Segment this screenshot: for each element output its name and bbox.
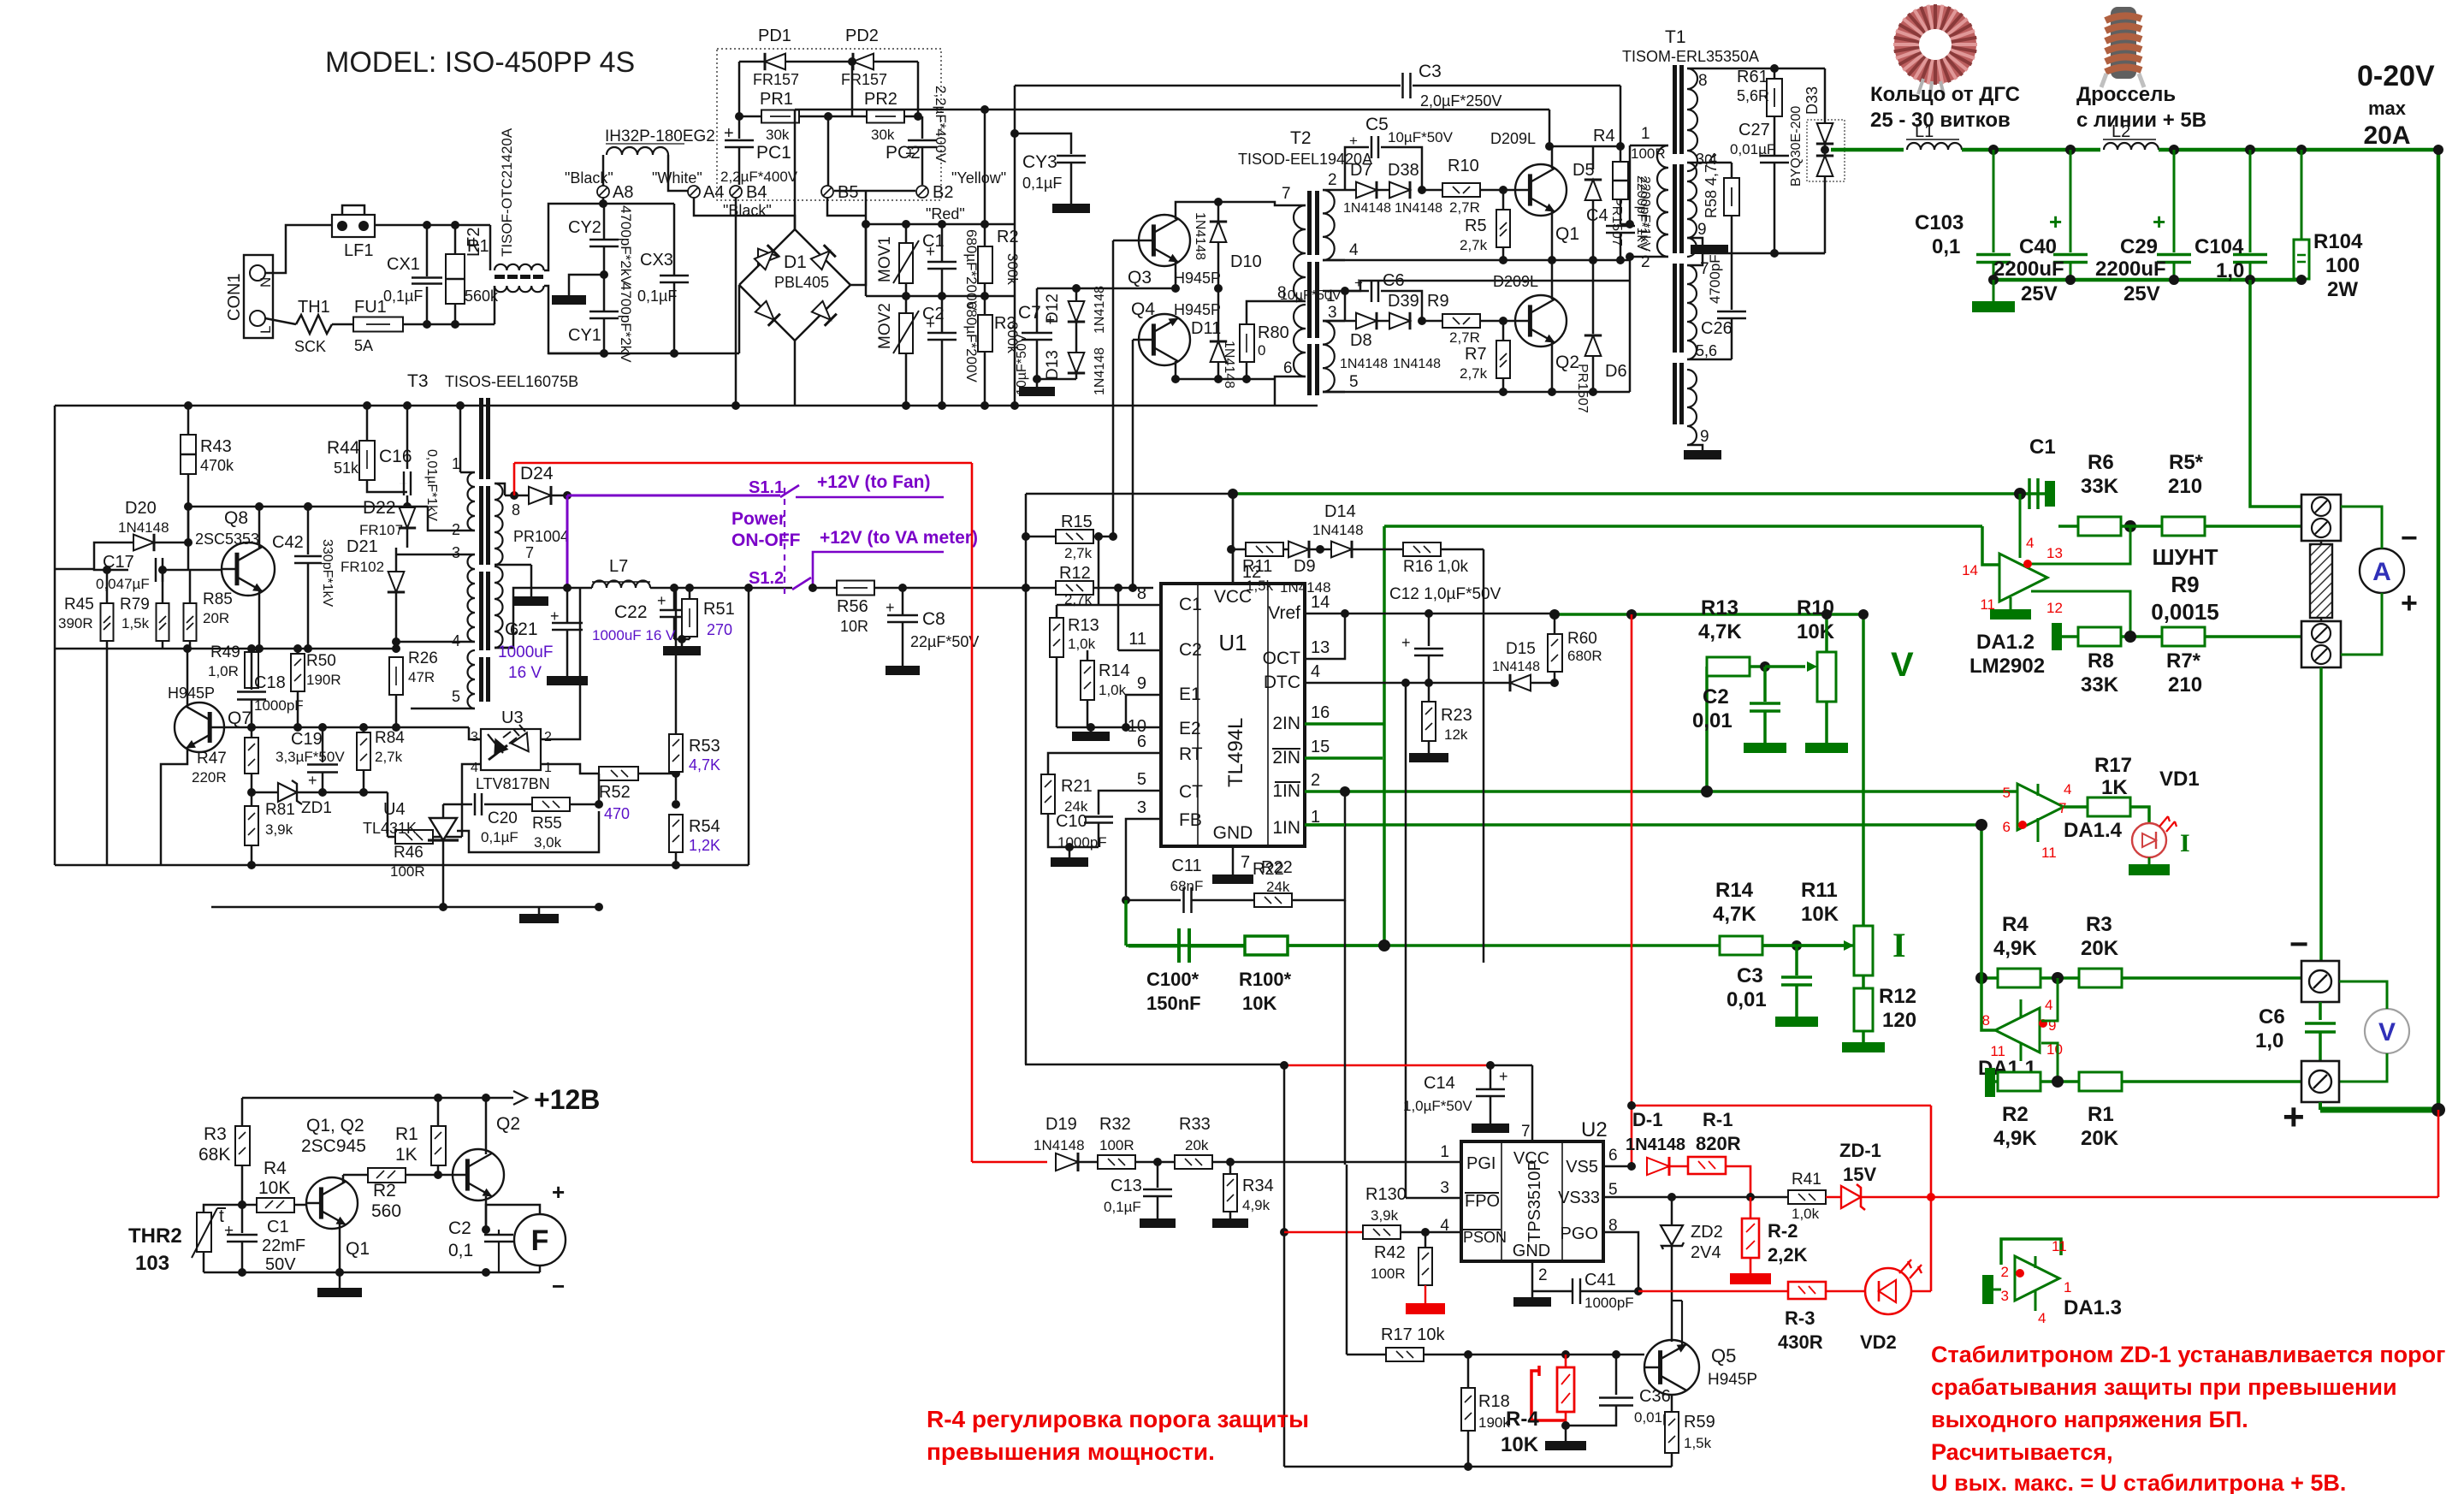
T2 primary winding lower — [1294, 305, 1306, 376]
wire DA1.1 pin10 — [2041, 1043, 2058, 1082]
svg-text:Q3: Q3 — [1128, 268, 1152, 288]
svg-text:Расчитывается,: Расчитывается, — [1931, 1439, 2113, 1465]
capacitor C6 1,0 green — [2319, 1002, 2322, 1020]
svg-text:+: + — [657, 592, 666, 609]
capacitor C3 green small — [1795, 946, 1798, 975]
svg-text:R26: R26 — [408, 649, 438, 667]
wire bridge right — [850, 224, 866, 285]
svg-text:"Black": "Black" — [565, 169, 613, 187]
svg-text:L: L — [258, 326, 274, 334]
svg-text:D8: D8 — [1350, 331, 1372, 350]
U1 Vref wire — [1305, 613, 1555, 615]
T3 secondary 6 — [495, 566, 503, 648]
capacitor CX1 — [426, 225, 429, 276]
resistor R33 20k — [1175, 1155, 1212, 1169]
svg-text:430R: 430R — [1778, 1331, 1823, 1353]
svg-text:MOV1: MOV1 — [876, 236, 894, 282]
node A8 — [597, 186, 609, 198]
ground for CY1/CY2 — [600, 270, 608, 279]
svg-text:R58 4,7R: R58 4,7R — [1703, 153, 1720, 218]
resistor R22 24k — [1254, 893, 1292, 907]
resistor R7 2,7k — [1499, 317, 1507, 325]
svg-text:1000pF: 1000pF — [1057, 834, 1107, 851]
svg-text:срабатывания защиты при превыш: срабатывания защиты при превышении — [1931, 1374, 2397, 1400]
svg-text:I: I — [1892, 926, 1906, 964]
svg-text:D15: D15 — [1506, 640, 1536, 658]
green C100 R100 branch — [1124, 900, 1128, 946]
svg-text:"Black": "Black" — [723, 202, 772, 219]
wire green right vertical — [2437, 150, 2441, 1110]
T2 pin1 tap — [1323, 290, 1336, 293]
U1 pin C1 wire — [1099, 604, 1161, 607]
svg-text:TH1: TH1 — [298, 298, 330, 317]
T2 primary winding upper — [1294, 205, 1306, 301]
resistor R32 100R — [1079, 1161, 1098, 1164]
diode D5 PR1507 — [1592, 180, 1595, 190]
svg-text:R42: R42 — [1374, 1243, 1406, 1262]
svg-text:R6: R6 — [2088, 451, 2114, 474]
diode PD1 — [739, 61, 764, 63]
LED VD1 — [2130, 807, 2149, 823]
wire R3 to terminal — [2122, 977, 2305, 979]
svg-text:0,1: 0,1 — [448, 1241, 473, 1260]
svg-text:A: A — [2372, 558, 2391, 586]
svg-text:1N4148: 1N4148 — [1093, 286, 1107, 334]
svg-text:4: 4 — [2045, 997, 2052, 1013]
svg-text:R47: R47 — [197, 750, 227, 768]
resistor R61 5,6R — [1774, 68, 1776, 79]
svg-text:R13: R13 — [1701, 596, 1738, 620]
wire U4 ref — [457, 811, 599, 852]
svg-text:330pF*1kV: 330pF*1kV — [320, 539, 335, 607]
resistor R6 33K — [2078, 517, 2121, 536]
wire PGO — [1603, 1232, 1638, 1291]
terminal block shunt top — [2301, 495, 2341, 541]
purple vertical to L7 node — [566, 495, 569, 588]
resistor R1 — [454, 225, 457, 254]
capacitor C104 — [2245, 145, 2255, 155]
diode D6 PR1507 — [1592, 260, 1595, 334]
svg-text:2200uF: 2200uF — [2095, 258, 2166, 281]
capacitor C41 — [1572, 1278, 1573, 1304]
resistor R8 33K — [2078, 627, 2121, 646]
resistor R12 120 green — [1854, 988, 1873, 1031]
svg-text:FR157: FR157 — [841, 71, 887, 88]
svg-text:PGI: PGI — [1466, 1154, 1496, 1173]
wire bridge left — [738, 285, 741, 353]
svg-text:R100*: R100* — [1239, 969, 1292, 990]
svg-text:R84: R84 — [375, 729, 405, 747]
transistor Q7 H945P — [175, 703, 224, 752]
svg-text:R2: R2 — [373, 1181, 396, 1201]
wire x1200 vertical — [1025, 494, 1028, 1064]
wire row pin5 — [1323, 391, 1630, 394]
svg-text:1,2K: 1,2K — [689, 837, 720, 854]
svg-text:13: 13 — [1311, 638, 1330, 657]
svg-text:TL431K: TL431K — [363, 820, 417, 837]
svg-text:30k: 30k — [871, 127, 895, 143]
resistor R56 10R — [837, 581, 874, 596]
capacitor C14 — [1490, 1065, 1492, 1088]
T3 secondary 7 — [495, 564, 531, 566]
svg-text:150nF: 150nF — [1146, 993, 1201, 1014]
R80 resistor — [1240, 324, 1254, 362]
resistor R16 1,0k — [1403, 542, 1441, 556]
resistor R53 4,7K — [675, 588, 678, 734]
wire Q2 fan emitter — [485, 1196, 488, 1230]
svg-text:R54: R54 — [689, 817, 720, 836]
svg-text:+: + — [885, 599, 895, 616]
wire pin5 down — [1629, 281, 1632, 392]
svg-text:PD1: PD1 — [758, 27, 791, 45]
svg-text:C11: C11 — [1171, 857, 1201, 875]
diode D38 — [1377, 189, 1389, 192]
diode D-1 red — [1603, 1165, 1632, 1168]
photo toroidal core — [1893, 4, 1977, 97]
svg-text:2,7k: 2,7k — [1064, 545, 1093, 561]
pot R-4 10K red — [1565, 1355, 1567, 1367]
svg-text:R9: R9 — [2171, 572, 2199, 597]
voltmeter V — [2365, 1009, 2409, 1053]
svg-text:1N4148: 1N4148 — [118, 519, 169, 536]
resistor R85 20R — [184, 603, 197, 641]
svg-text:0,1µF: 0,1µF — [1022, 175, 1062, 192]
resistor R58 4,7R — [1731, 163, 1733, 178]
svg-text:20K: 20K — [2081, 937, 2119, 960]
wire Q7 base — [224, 726, 252, 729]
wire Q3 collector — [1176, 202, 1218, 219]
svg-text:+: + — [1354, 275, 1363, 291]
svg-text:15V: 15V — [1843, 1164, 1876, 1185]
wire green bus right — [2159, 148, 2438, 152]
fan meter F — [514, 1214, 566, 1266]
svg-text:FPO: FPO — [1465, 1192, 1500, 1211]
wire Q7 base line — [252, 726, 469, 729]
svg-text:4,7K: 4,7K — [1713, 903, 1756, 926]
transistor Q8 2SC5353 — [222, 542, 275, 596]
svg-text:+: + — [1401, 634, 1411, 651]
svg-text:R5: R5 — [1465, 216, 1487, 235]
svg-text:PSON: PSON — [1463, 1229, 1507, 1246]
resistor R44 51k — [366, 406, 369, 441]
svg-text:1000uF 16 V: 1000uF 16 V — [592, 627, 676, 643]
wire T3 pin1 up — [459, 406, 462, 472]
ground green main — [1988, 275, 1999, 285]
resistor R3 300k — [984, 296, 986, 315]
svg-text:9: 9 — [1697, 221, 1707, 239]
svg-text:0,01: 0,01 — [1692, 709, 1732, 732]
svg-text:MODEL: ISO-450PP 4S: MODEL: ISO-450PP 4S — [325, 46, 635, 79]
diode D15 symbol — [1510, 675, 1531, 691]
resistor R3 fan 68K — [241, 1098, 244, 1126]
svg-text:"White": "White" — [652, 169, 702, 187]
resistor PR2 — [867, 110, 904, 123]
svg-text:R50: R50 — [306, 652, 336, 670]
wire fan bottom rail — [204, 1272, 540, 1274]
wire green line4 (1IN-) — [1345, 790, 2017, 793]
svg-text:BYQ30E-200: BYQ30E-200 — [1789, 106, 1804, 187]
svg-text:C2: C2 — [1703, 685, 1729, 708]
svg-text:с линии + 5В: с линии + 5В — [2076, 109, 2206, 132]
svg-text:1N4148: 1N4148 — [1395, 201, 1442, 216]
svg-text:5,6: 5,6 — [1696, 342, 1717, 359]
wire R2 top to line2 — [984, 110, 986, 224]
svg-text:12: 12 — [2046, 600, 2063, 616]
svg-text:E2: E2 — [1179, 719, 1201, 738]
resistor R3 20K green — [2079, 969, 2122, 987]
svg-text:3,9k: 3,9k — [265, 821, 293, 838]
svg-text:C19: C19 — [291, 730, 323, 749]
svg-text:R22: R22 — [1261, 858, 1293, 877]
T1 secondary 3,4-9 — [1687, 163, 1697, 257]
bus mid row — [866, 295, 1015, 298]
wire aux line y592 — [188, 506, 428, 508]
svg-text:OCT: OCT — [1263, 649, 1301, 668]
wire fan top rail — [242, 1097, 513, 1100]
svg-text:U4: U4 — [383, 800, 406, 819]
svg-text:20R: 20R — [203, 610, 229, 626]
transistor Q5 H945P — [1644, 1340, 1699, 1395]
svg-text:C2: C2 — [448, 1218, 471, 1238]
wire Q7 collector — [187, 649, 189, 707]
T3 secondary 8 — [495, 483, 503, 565]
svg-text:4,7K: 4,7K — [1698, 620, 1742, 643]
capacitor C4 — [1606, 225, 1635, 228]
svg-text:R2: R2 — [2002, 1103, 2029, 1126]
svg-text:R33: R33 — [1179, 1115, 1211, 1134]
wire bridge bottom — [794, 341, 797, 406]
svg-text:D21: D21 — [346, 537, 378, 556]
wire R16 right down — [1483, 549, 1485, 963]
svg-text:5: 5 — [1137, 770, 1146, 789]
svg-text:10K: 10K — [1801, 903, 1839, 926]
svg-text:2: 2 — [544, 730, 552, 744]
svg-text:R7*: R7* — [2166, 649, 2201, 673]
T3 primary winding 3-4 — [468, 554, 476, 642]
wire Q3 emitter — [1175, 262, 1177, 288]
resistor R49 1,0R — [245, 652, 258, 688]
svg-text:C29: C29 — [2120, 235, 2158, 258]
svg-text:R49: R49 — [210, 643, 240, 661]
svg-text:R3: R3 — [2086, 913, 2112, 936]
svg-text:7: 7 — [1282, 185, 1291, 203]
svg-text:+: + — [2283, 1096, 2305, 1138]
transistor Q1 fan — [306, 1177, 358, 1229]
svg-text:1: 1 — [2064, 1279, 2071, 1295]
connector CON1 — [244, 255, 273, 338]
svg-text:5,6R: 5,6R — [1737, 87, 1769, 104]
svg-text:4: 4 — [2038, 1310, 2046, 1326]
purple wire D24 to S1.1 — [567, 495, 780, 497]
svg-text:R52: R52 — [599, 783, 631, 802]
resistor R2 300k — [984, 224, 986, 246]
svg-text:C13: C13 — [1111, 1177, 1142, 1195]
svg-text:R41: R41 — [1792, 1171, 1821, 1189]
svg-text:51k: 51k — [334, 459, 359, 477]
wire Q4 emitter — [1176, 361, 1218, 379]
svg-text:1,0: 1,0 — [2255, 1029, 2283, 1052]
svg-text:R-4 регулировка порога защиты: R-4 регулировка порога защиты — [927, 1406, 1309, 1432]
wire output plus thick — [2319, 1102, 2322, 1110]
resistor PR1 — [738, 62, 741, 116]
svg-text:1N4148: 1N4148 — [1393, 357, 1441, 371]
svg-text:R-1: R-1 — [1703, 1109, 1732, 1130]
svg-text:R81: R81 — [265, 801, 295, 819]
svg-text:R-3: R-3 — [1785, 1307, 1815, 1329]
svg-text:E1: E1 — [1179, 685, 1201, 704]
svg-text:2,7k: 2,7k — [1460, 237, 1488, 253]
wire Q1 collector up — [1551, 146, 1554, 169]
svg-text:4: 4 — [2026, 535, 2034, 551]
svg-text:15: 15 — [1311, 738, 1330, 756]
svg-text:1N4148: 1N4148 — [1193, 212, 1207, 260]
svg-text:14: 14 — [1962, 562, 1978, 578]
svg-text:D7: D7 — [1350, 161, 1372, 180]
wire N to LF1 — [265, 225, 332, 273]
svg-text:C2: C2 — [922, 305, 945, 323]
svg-text:4700pF*2kV: 4700pF*2kV — [618, 282, 634, 363]
svg-text:PC2: PC2 — [885, 143, 921, 163]
svg-text:R-4: R-4 — [1506, 1408, 1539, 1431]
svg-text:0,01µF*1kV: 0,01µF*1kV — [424, 449, 439, 521]
resistor R-2 2,2K red — [1750, 1197, 1752, 1218]
resistor R15 2,7k — [1026, 536, 1056, 538]
varistor MOV2 — [905, 296, 908, 313]
wire base line to U3 pin3 — [469, 727, 481, 739]
svg-text:2,2K: 2,2K — [1768, 1244, 1808, 1266]
svg-text:Vref: Vref — [1268, 603, 1300, 623]
thermistor TH1 — [296, 315, 332, 334]
wire R46 to U3 pin4 — [462, 764, 481, 837]
svg-text:FR102: FR102 — [341, 559, 384, 575]
svg-text:D12: D12 — [1044, 293, 1062, 323]
LED VD2 red — [1826, 1290, 1865, 1293]
wire U3 pin1 to R52 — [541, 764, 599, 774]
varistor MOV1 — [905, 224, 908, 243]
svg-text:10K: 10K — [1501, 1433, 1539, 1456]
wire DA1.2 pin13 feedback — [2028, 526, 2130, 564]
svg-text:820R: 820R — [1696, 1133, 1741, 1154]
capacitor C27 — [1774, 116, 1776, 155]
resistor R59 1,5k — [1671, 1395, 1673, 1412]
terminal block shunt bottom — [2301, 621, 2341, 667]
svg-text:N: N — [258, 277, 274, 288]
resistor R52 470 — [599, 767, 638, 780]
svg-text:0,1: 0,1 — [1932, 235, 1960, 258]
bus B+ row — [866, 223, 1015, 226]
svg-text:16: 16 — [1311, 703, 1330, 722]
capacitor C1 680uF — [941, 224, 944, 261]
svg-text:−: − — [2289, 927, 2308, 963]
svg-text:CX1: CX1 — [387, 255, 420, 274]
wire C22 R51 bottom gnd — [674, 638, 690, 641]
svg-text:R34: R34 — [1242, 1177, 1274, 1195]
svg-text:68K: 68K — [198, 1145, 230, 1165]
svg-text:470: 470 — [604, 805, 630, 822]
purple dashed link — [784, 488, 785, 599]
U1 pin 2INb wire — [1305, 756, 1383, 760]
svg-text:C14: C14 — [1424, 1074, 1455, 1093]
svg-text:R1: R1 — [395, 1124, 418, 1144]
svg-text:D22: D22 — [363, 498, 396, 518]
fuse FU1 — [332, 323, 353, 326]
svg-text:+: + — [550, 608, 560, 625]
svg-text:16 V: 16 V — [508, 664, 542, 682]
svg-text:Стабилитроном ZD-1 устанавлива: Стабилитроном ZD-1 устанавливается порог — [1931, 1342, 2445, 1367]
svg-text:+: + — [552, 1179, 565, 1205]
svg-text:Q1: Q1 — [1555, 224, 1579, 244]
svg-text:−: − — [552, 1273, 565, 1299]
resistor R42 100R — [1424, 1232, 1427, 1248]
svg-text:FB: FB — [1179, 810, 1202, 830]
svg-text:PR1507: PR1507 — [1575, 364, 1590, 413]
svg-text:C1: C1 — [922, 232, 945, 251]
red vertical right to green — [2437, 1110, 2440, 1197]
resistor R17 10k — [1386, 1348, 1424, 1361]
red LED chain R-3 VD2 — [1638, 1290, 1788, 1293]
C2 fan cap — [484, 1234, 513, 1236]
svg-text:LTV817BN: LTV817BN — [476, 775, 550, 792]
svg-text:V: V — [1891, 646, 1914, 684]
svg-text:TL494L: TL494L — [1224, 718, 1247, 787]
wire aux gnd bottom — [595, 903, 603, 911]
svg-text:max: max — [2368, 98, 2407, 119]
wire Q2 emitter — [1551, 342, 1554, 392]
wire DA1.4 out — [2064, 805, 2088, 809]
capacitor C29 — [2169, 145, 2179, 155]
svg-text:7: 7 — [1241, 853, 1250, 872]
svg-text:R23: R23 — [1441, 706, 1472, 725]
node B2 — [916, 186, 928, 198]
capacitor C1 green 0,1 — [2014, 488, 2026, 500]
T1 primary winding — [1657, 145, 1668, 257]
purple +12V to VA meter wire — [813, 552, 944, 588]
svg-text:1000pF: 1000pF — [1584, 1295, 1634, 1311]
svg-text:V: V — [2378, 1018, 2396, 1046]
svg-text:PD2: PD2 — [845, 27, 879, 45]
diode D39 — [1377, 320, 1389, 323]
svg-text:TISOF-OTC21420A: TISOF-OTC21420A — [499, 127, 515, 257]
svg-text:+: + — [2049, 209, 2062, 234]
svg-text:14: 14 — [1311, 593, 1330, 612]
wire VS33 — [1603, 1196, 1788, 1199]
svg-text:4,9k: 4,9k — [1242, 1197, 1270, 1213]
wire ZD2-Q5 — [1681, 1301, 1683, 1346]
svg-text:4: 4 — [471, 761, 478, 775]
svg-text:680R: 680R — [1567, 648, 1602, 664]
resistor R79 1,5k — [162, 570, 164, 603]
svg-text:2,7R: 2,7R — [1449, 199, 1480, 216]
svg-text:190R: 190R — [306, 672, 341, 688]
DA1.3 gnd bar — [1982, 1275, 1993, 1304]
svg-text:8: 8 — [1982, 1012, 1990, 1029]
resistor R17 1K green — [2088, 797, 2130, 816]
wire Q4 base vertical — [1132, 340, 1134, 588]
svg-text:C5: C5 — [1365, 115, 1389, 134]
svg-text:0,1µF: 0,1µF — [1104, 1199, 1141, 1215]
wire LF1 to CX1/R1 — [375, 224, 490, 227]
wire T3 pin3 — [396, 554, 460, 556]
wire Q2 fan collector — [485, 1098, 488, 1154]
T2 pin8 wire — [1247, 301, 1306, 324]
svg-text:C20: C20 — [488, 809, 518, 827]
wire T3 pin4 D21 — [396, 641, 460, 643]
capacitor PC2 — [921, 116, 924, 139]
wire Q1 fan collector — [342, 1175, 345, 1183]
wire T3 pin8 node — [505, 495, 567, 497]
wire to VCC dot — [1026, 493, 1229, 495]
wire Q2 emitter to F — [486, 1205, 540, 1230]
